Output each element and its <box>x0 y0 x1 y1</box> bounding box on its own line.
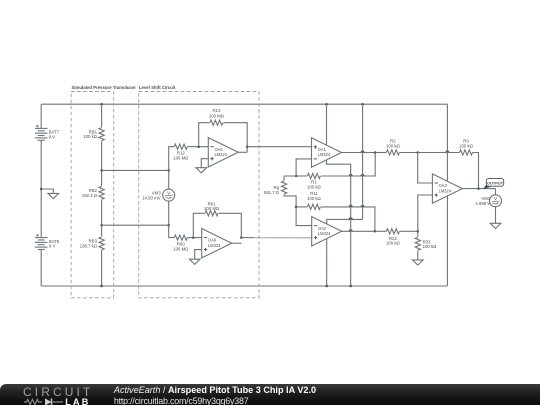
wire: OA1 V+ supply <box>326 104 328 145</box>
node: battery midpoint junction <box>40 188 43 191</box>
wire: feedback up to R61 <box>193 213 204 237</box>
wire: OA4 + input to ground <box>201 159 208 168</box>
node: OA2 output junction <box>374 230 377 233</box>
svg-text:100 MΩ: 100 MΩ <box>204 206 220 211</box>
node: node B junction <box>295 206 298 209</box>
svg-text:192.4 Ω: 192.4 Ω <box>82 193 98 198</box>
op-amp OA4 <box>208 138 238 167</box>
wire: OA5 output to OA2 + input <box>241 237 311 239</box>
wire: OA3 output row <box>462 188 495 190</box>
node: upper tap to R12/VM3 <box>167 169 170 172</box>
wire: BAT7 to BAT8 via mid ground junction <box>40 140 42 237</box>
svg-text:LM324: LM324 <box>439 188 452 193</box>
node: OA5 inverting node <box>192 236 195 239</box>
wire: VM3 upper lead <box>168 170 170 189</box>
node: OA1 output junction <box>374 151 377 154</box>
wire: R11 to OA2 output feedback <box>321 207 375 231</box>
resistor R3 <box>460 150 473 155</box>
svg-text:100 kΩ: 100 kΩ <box>423 244 438 249</box>
wire: to R2 <box>375 152 386 154</box>
node: OA1 V+ rail junction <box>325 103 328 106</box>
wire: node A to Rg top <box>284 176 296 180</box>
wire: bridge tap upper <box>102 169 169 171</box>
resistor R22 <box>386 229 399 234</box>
hop: R11 row over OA1 V- drop <box>349 205 352 207</box>
hop: R1 row over OA1 V- drop <box>349 175 352 177</box>
svg-text:100 kΩ: 100 kΩ <box>307 196 322 201</box>
wire: OA1 output row <box>342 152 376 154</box>
wire: OA2 V+ link <box>327 219 363 224</box>
wire: OA2 V+ supply drop <box>362 104 364 219</box>
svg-text:138.7 kΩ: 138.7 kΩ <box>80 243 98 248</box>
wire: RB2 to RB3 <box>101 200 103 237</box>
svg-text:100 kΩ: 100 kΩ <box>386 143 401 148</box>
resistor R60 <box>174 235 187 240</box>
svg-text:Level Shift Circuit: Level Shift Circuit <box>139 85 176 90</box>
wire: up to R12 row <box>169 147 175 171</box>
wire: R2 to difference node <box>400 152 418 154</box>
wire: OA3 - input drop <box>418 153 433 184</box>
wire: node A to R1 <box>296 175 307 177</box>
wire: OA5 output <box>232 242 242 244</box>
svg-text:LM324: LM324 <box>208 243 221 248</box>
wire: OA1 V- supply to bottom rail <box>327 160 351 286</box>
hop: R1 row over OA2 V+ drop <box>361 175 364 177</box>
wire: R3 down to output <box>473 153 479 189</box>
wire: bridge tap lower <box>102 224 169 226</box>
svg-text:LM324: LM324 <box>318 152 331 157</box>
svg-text:9 V: 9 V <box>49 244 56 249</box>
resistor R12 <box>174 144 187 149</box>
wire: OA2 V- supply to bottom rail <box>326 239 328 286</box>
wire: down to R60 row <box>169 225 175 237</box>
box: Level Shift Circuit <box>139 92 259 298</box>
svg-text:R13: R13 <box>212 108 220 113</box>
node: RB2/RB3 junction <box>100 224 103 227</box>
flag: OUTPUT pointer <box>483 184 492 190</box>
svg-text:OUTPUT: OUTPUT <box>487 180 504 185</box>
hop: R3 row over OA3 V+ drop <box>446 151 449 153</box>
box: Simulated Pressure Transducer <box>71 92 114 298</box>
node: RB1 top rail junction <box>100 103 103 106</box>
wire: VM3 lower lead <box>168 201 170 225</box>
svg-text:100 kΩ: 100 kΩ <box>307 185 322 190</box>
wire: RB3 to bottom rail <box>101 250 103 286</box>
node: R3 output junction <box>477 187 480 190</box>
node: OA4 output branch <box>246 145 249 148</box>
node: RB3 bottom rail junction <box>100 285 103 288</box>
wire: R3 feedback row <box>418 152 460 154</box>
node: R2/R3/OA3- junction <box>416 151 419 154</box>
ground: OA4 + input <box>196 168 207 173</box>
node: OA4 inverting node <box>197 145 200 148</box>
resistor RB3 <box>99 237 104 250</box>
wire: feedback up to R13 <box>199 123 210 147</box>
wire: down to VM1 <box>495 189 497 196</box>
wire: stub to mid ground <box>41 189 53 193</box>
wire: OA4 output <box>238 151 247 153</box>
ground: VM1 <box>490 223 501 228</box>
node: RB1/RB2 junction <box>100 169 103 172</box>
wire: R1 to OA1 output feedback <box>321 152 375 176</box>
op-amp OA2 <box>312 217 342 246</box>
node: OA2 V- bottom rail junction <box>325 285 328 288</box>
hop: OA1 output row over OA2 V+ drop <box>361 151 364 153</box>
node: OA1 V- bottom rail junction <box>349 285 352 288</box>
ground: battery midpoint <box>48 193 59 198</box>
svg-text:LM324: LM324 <box>318 231 331 236</box>
resistor R61 <box>205 211 218 216</box>
resistor RB2 <box>99 186 104 199</box>
wire: OA3 + input drop <box>418 195 433 231</box>
voltmeter VM1 <box>490 195 502 207</box>
wire: R11 from node B <box>296 206 307 208</box>
hop: OA2 V+ link over OA1 V- drop <box>349 218 352 220</box>
svg-text:LM324: LM324 <box>215 152 228 157</box>
op-amp OA1 <box>312 138 342 167</box>
node: R22/R33/OA3+ junction <box>417 230 420 233</box>
resistor R1 <box>307 173 320 178</box>
svg-text:100 MΩ: 100 MΩ <box>173 156 189 161</box>
svg-text:100 kΩ: 100 kΩ <box>386 241 401 246</box>
CircuitLab logo <box>23 386 95 405</box>
resistor R2 <box>386 150 399 155</box>
svg-text:4.998 V: 4.998 V <box>475 201 490 206</box>
wire: R12 to OA4 inverting input <box>187 146 208 148</box>
svg-text:14.50 mV: 14.50 mV <box>142 196 161 201</box>
wire: R61 down to OA5 output node <box>219 213 242 237</box>
op-amp OA6 <box>202 229 232 258</box>
wire: OA3 V- to bottom rail <box>446 196 448 286</box>
wire: R60 to OA5 inverting input <box>187 237 201 239</box>
wire: left rail down to BAT7 <box>40 104 42 128</box>
resistor R11 <box>307 204 320 209</box>
footer title text <box>114 385 316 405</box>
wire: OA5 + input to ground <box>195 250 202 260</box>
wire: OA4 output to OA1 + input <box>247 146 311 148</box>
wire: OA2 output row <box>342 230 375 232</box>
resistor Rg <box>282 181 287 194</box>
battery BAT8 <box>35 237 48 239</box>
wire: Rg bottom to node B <box>284 194 312 225</box>
node: OA5 output branch <box>240 236 243 239</box>
node: node A junction <box>295 175 298 178</box>
svg-text:100 MΩ: 100 MΩ <box>173 246 189 251</box>
wire: top +9V supply rail <box>41 103 447 105</box>
wire: OA1 - input to node A <box>296 159 311 176</box>
wire: OA3 V+ from top rail <box>446 104 448 181</box>
wire: rail to RB1 <box>101 104 103 127</box>
wire: R22 to OA3 + node <box>400 230 418 232</box>
flag: OUTPUT box <box>486 179 503 187</box>
op-amp OA3 <box>432 174 462 203</box>
resistor R33 <box>417 231 419 237</box>
wire: VM1 to ground <box>495 206 497 223</box>
svg-text:100 MΩ: 100 MΩ <box>209 114 225 119</box>
svg-text:100 kΩ: 100 kΩ <box>83 134 98 139</box>
svg-text:591.7 Ω: 591.7 Ω <box>264 190 280 195</box>
ground: R33 <box>413 260 424 265</box>
ground: OA5 + input <box>189 259 200 264</box>
node: lower tap to R60 <box>167 224 170 227</box>
svg-text:9 V: 9 V <box>49 134 56 139</box>
resistor RB1 <box>99 128 104 141</box>
svg-text:Simulated Pressure Transducer: Simulated Pressure Transducer <box>72 85 137 90</box>
svg-text:100 kΩ: 100 kΩ <box>459 143 474 148</box>
resistor R13 <box>210 120 223 125</box>
node: OA2 V+ rail junction <box>361 103 364 106</box>
wire: BAT8 down to bottom rail <box>40 250 42 287</box>
logo resistor-diode squiggle <box>23 386 95 405</box>
wire: R13 down to OA4 output <box>223 123 247 153</box>
wire: R33 to ground <box>417 251 419 260</box>
wire: to R22 <box>375 230 386 232</box>
voltmeter VM3 <box>163 189 175 201</box>
hop: R11 row over OA2 V+ drop <box>361 205 364 207</box>
hop: OA2 output row over OA1 V- drop <box>349 230 352 231</box>
wire: RB1 to RB2 <box>101 141 103 186</box>
wire: bottom -9V supply rail <box>41 285 447 287</box>
